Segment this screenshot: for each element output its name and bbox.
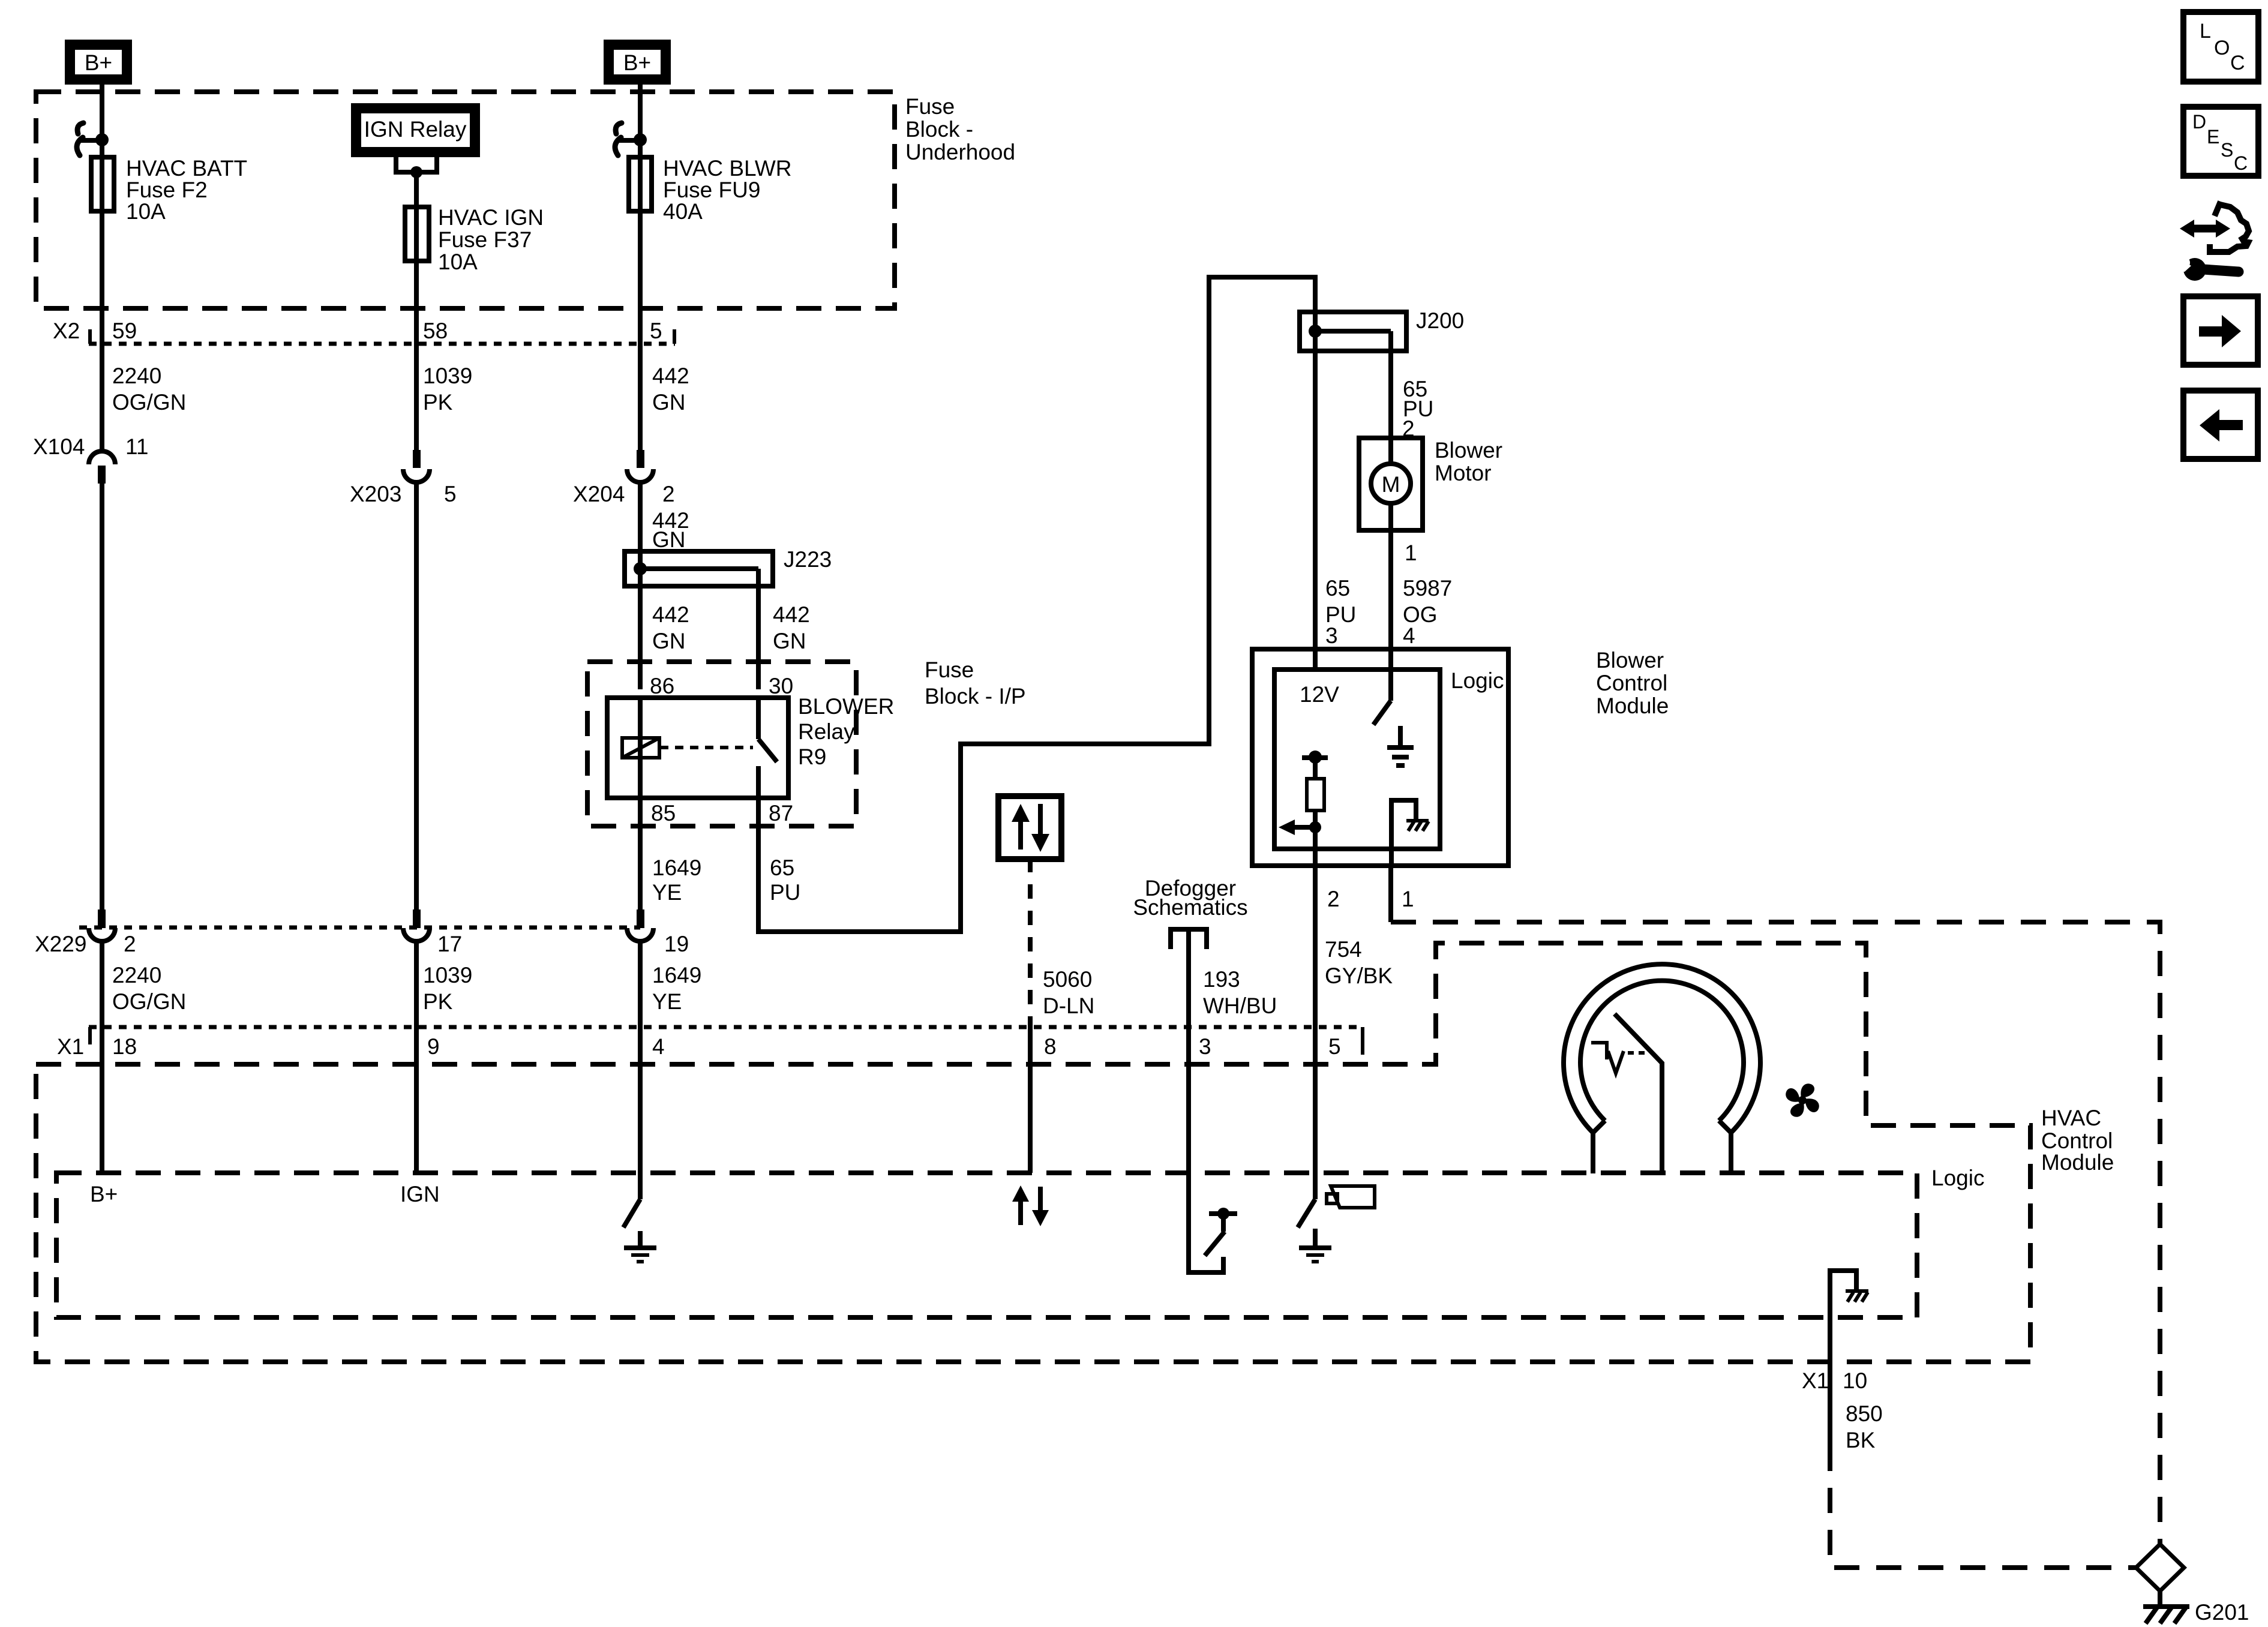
- svg-text:D-LN: D-LN: [1043, 993, 1094, 1018]
- svg-text:Control: Control: [2041, 1128, 2113, 1153]
- relay coil to contact dashed link: [660, 746, 753, 749]
- relay coil: [638, 698, 643, 738]
- wire BCM pin 2 down: [1313, 866, 1318, 1173]
- svg-text:Module: Module: [2041, 1150, 2114, 1175]
- X229 pin A: [98, 909, 106, 928]
- svg-text:65: 65: [1325, 576, 1350, 601]
- svg-text:2: 2: [124, 932, 136, 956]
- svg-text:17: 17: [437, 932, 462, 956]
- wire B+ to fuse F2: [100, 85, 104, 157]
- svg-text:59: 59: [112, 319, 137, 343]
- wire relay to fuse F37: [414, 172, 419, 207]
- svg-text:1: 1: [1405, 541, 1417, 565]
- wire J223 right leg: [756, 569, 761, 689]
- wire B+ to fuse FU9: [638, 85, 643, 157]
- svg-text:Fuse FU9: Fuse FU9: [663, 178, 760, 202]
- svg-text:442: 442: [652, 364, 689, 388]
- svg-text:X2: X2: [53, 319, 80, 343]
- svg-text:3: 3: [1325, 623, 1338, 648]
- relay switch contact: [756, 698, 761, 739]
- svg-text:5: 5: [650, 319, 662, 343]
- connector X104: [89, 451, 115, 464]
- svg-text:5060: 5060: [1043, 967, 1092, 992]
- dashed ground run 850 BK: [1830, 1446, 2136, 1568]
- fuse holder clips F2: [77, 123, 83, 134]
- blower relay R9 box: [607, 698, 788, 798]
- svg-text:1649: 1649: [652, 963, 701, 987]
- svg-text:Fuse F37: Fuse F37: [438, 227, 532, 252]
- svg-text:5: 5: [1328, 1034, 1341, 1059]
- svg-text:40A: 40A: [663, 199, 703, 224]
- wire X104 to X229: [100, 484, 104, 909]
- HVAC control module dashed outline: [36, 943, 2030, 1362]
- wire 85 to X229: [638, 798, 643, 909]
- svg-text:Fuse: Fuse: [905, 94, 955, 119]
- svg-text:OG/GN: OG/GN: [112, 989, 186, 1014]
- HVAC internal chassis ground hook: [1830, 1271, 1856, 1317]
- HVAC logic dashed box: [56, 1173, 1917, 1317]
- wire FU9 to X204: [638, 211, 643, 450]
- svg-text:B+: B+: [90, 1182, 118, 1206]
- fuse F2: [91, 157, 114, 211]
- X229 pin B: [413, 909, 421, 928]
- svg-text:Block - I/P: Block - I/P: [925, 684, 1026, 709]
- fuse F37: [405, 207, 429, 261]
- svg-text:4: 4: [652, 1034, 665, 1059]
- svg-text:PK: PK: [423, 390, 453, 415]
- svg-text:18: 18: [112, 1034, 137, 1059]
- DESC nav box: [2183, 107, 2258, 176]
- svg-text:X1: X1: [57, 1034, 84, 1059]
- svg-text:Control: Control: [1596, 671, 1667, 695]
- B+ power box 1: [65, 40, 132, 85]
- svg-text:5987: 5987: [1403, 576, 1452, 601]
- svg-text:87: 87: [769, 801, 793, 825]
- svg-text:2: 2: [662, 482, 675, 506]
- svg-text:R9: R9: [798, 745, 826, 769]
- dashed wire 5060 to X1: [1028, 858, 1033, 1027]
- svg-text:E: E: [2207, 126, 2219, 148]
- svg-text:Motor: Motor: [1435, 461, 1492, 485]
- wrench icon: [2203, 269, 2239, 272]
- X229 pin C: [637, 909, 644, 928]
- wire J200 to BCM pin 3: [1313, 351, 1318, 649]
- wires X229 to X1: [100, 941, 104, 1173]
- svg-text:C: C: [2234, 152, 2248, 174]
- svg-text:X203: X203: [350, 482, 401, 506]
- connector X2 line: [89, 342, 675, 346]
- svg-text:442: 442: [773, 602, 810, 627]
- svg-text:Underhood: Underhood: [905, 140, 1015, 164]
- ground splice diamond: [2136, 1544, 2184, 1591]
- svg-text:S: S: [2221, 139, 2233, 161]
- BCM control arrow: [1309, 821, 1321, 833]
- svg-text:BLOWER: BLOWER: [798, 694, 894, 719]
- wire F37 to X203: [414, 261, 419, 450]
- svg-text:30: 30: [769, 674, 793, 698]
- wire X1-10 ground: [1828, 1317, 1832, 1446]
- svg-text:193: 193: [1203, 967, 1240, 992]
- svg-text:86: 86: [650, 674, 674, 698]
- dashed ground run from BCM: [1391, 922, 2160, 1544]
- car direction icon: [2190, 225, 2220, 233]
- svg-text:M: M: [1382, 472, 1400, 497]
- fuse holder clips FU9: [616, 123, 622, 134]
- IGN relay output bracket: [396, 157, 437, 172]
- left arrow nav box: [2183, 391, 2258, 459]
- svg-text:O: O: [2214, 37, 2230, 59]
- splice J223: [625, 551, 773, 586]
- wire 193 to X1: [1186, 929, 1191, 1173]
- svg-text:HVAC IGN: HVAC IGN: [438, 205, 544, 230]
- knob dial: [1564, 964, 1760, 1133]
- svg-text:1039: 1039: [423, 364, 472, 388]
- svg-text:Module: Module: [1596, 694, 1669, 718]
- svg-text:X229: X229: [35, 932, 86, 956]
- ground under switch A: [638, 1231, 643, 1248]
- connector X203: [413, 450, 421, 468]
- blower motor: [1359, 438, 1423, 530]
- svg-text:PK: PK: [423, 989, 453, 1014]
- svg-text:Logic: Logic: [1931, 1166, 1984, 1190]
- wire 5060 X1 to module: [1028, 1027, 1033, 1173]
- HVAC internal switch wire A: [638, 1173, 643, 1199]
- svg-text:J200: J200: [1416, 308, 1464, 333]
- blower control module box: [1252, 649, 1508, 866]
- wire F2 to X104: [100, 211, 104, 451]
- HVAC internal defogger switch: [1189, 1173, 1223, 1272]
- svg-text:X104: X104: [33, 434, 85, 459]
- svg-text:3: 3: [1199, 1034, 1211, 1059]
- svg-text:BK: BK: [1846, 1428, 1876, 1452]
- svg-text:Logic: Logic: [1451, 668, 1504, 693]
- svg-text:11: 11: [125, 434, 148, 459]
- svg-text:10A: 10A: [126, 199, 166, 224]
- svg-text:2240: 2240: [112, 963, 161, 987]
- wire X204 to J223: [638, 482, 643, 551]
- svg-text:Blower: Blower: [1596, 648, 1664, 673]
- svg-text:IGN Relay: IGN Relay: [364, 117, 467, 142]
- svg-text:B+: B+: [85, 50, 112, 75]
- splice J200: [1300, 312, 1406, 351]
- svg-text:Block -: Block -: [905, 117, 973, 142]
- connector X229 line: [79, 926, 640, 930]
- fan icon: [1786, 1083, 1819, 1117]
- svg-text:Schematics: Schematics: [1133, 895, 1247, 920]
- svg-text:X204: X204: [573, 482, 625, 506]
- svg-text:PU: PU: [770, 880, 800, 905]
- wire J200 to blower motor: [1388, 331, 1393, 438]
- wire 87 to J200 run: [758, 277, 1315, 932]
- svg-text:5: 5: [444, 482, 457, 506]
- svg-text:D: D: [2192, 111, 2206, 133]
- ground under fan switch: [1313, 1229, 1318, 1248]
- svg-text:HVAC BLWR: HVAC BLWR: [663, 156, 791, 181]
- svg-text:442: 442: [652, 602, 689, 627]
- svg-text:OG/GN: OG/GN: [112, 390, 186, 415]
- svg-text:85: 85: [651, 801, 676, 825]
- svg-text:2240: 2240: [112, 364, 161, 388]
- svg-text:GN: GN: [652, 527, 686, 552]
- HVAC internal fan switch: [1313, 1173, 1318, 1199]
- svg-text:12V: 12V: [1300, 682, 1339, 707]
- svg-text:19: 19: [664, 932, 689, 956]
- svg-text:9: 9: [427, 1034, 440, 1059]
- svg-text:G201: G201: [2195, 1600, 2249, 1625]
- off-page arrows box: [998, 796, 1061, 859]
- wire motor to BCM pin 4: [1388, 530, 1393, 649]
- BCM pin1 chassis ground hook: [1391, 800, 1416, 866]
- svg-text:58: 58: [423, 319, 448, 343]
- connector X204: [637, 450, 644, 468]
- G201 chassis ground: [2143, 1604, 2189, 1609]
- svg-text:C: C: [2230, 52, 2245, 74]
- svg-text:B+: B+: [623, 50, 651, 75]
- fuse block underhood dashed box: [36, 92, 895, 308]
- connector X1 line: [89, 1025, 1363, 1029]
- svg-text:Fuse F2: Fuse F2: [126, 178, 208, 202]
- svg-text:L: L: [2200, 20, 2211, 43]
- svg-text:Relay: Relay: [798, 719, 855, 744]
- svg-text:GN: GN: [773, 629, 806, 653]
- svg-text:Blower: Blower: [1435, 438, 1502, 463]
- svg-text:WH/BU: WH/BU: [1203, 993, 1277, 1018]
- svg-text:850: 850: [1846, 1401, 1883, 1426]
- BCM internal ground: [1398, 726, 1403, 747]
- fuse FU9: [629, 157, 652, 211]
- svg-text:10A: 10A: [438, 250, 478, 274]
- svg-text:HVAC: HVAC: [2041, 1106, 2101, 1130]
- svg-text:GN: GN: [652, 629, 686, 653]
- BCM internal switch: [1388, 649, 1393, 701]
- svg-text:1: 1: [1402, 887, 1414, 911]
- IGN Relay box: [351, 103, 480, 157]
- svg-text:8: 8: [1044, 1034, 1057, 1059]
- svg-text:GY/BK: GY/BK: [1325, 963, 1393, 988]
- svg-text:J223: J223: [784, 547, 832, 572]
- HVAC internal up/down arrows: [1018, 1200, 1023, 1225]
- svg-text:GN: GN: [652, 390, 686, 415]
- svg-text:X1: X1: [1802, 1368, 1829, 1393]
- svg-text:YE: YE: [652, 989, 682, 1014]
- svg-text:HVAC BATT: HVAC BATT: [126, 156, 247, 181]
- wire X203 to X229: [414, 482, 419, 909]
- svg-text:Fuse: Fuse: [925, 658, 974, 682]
- svg-text:754: 754: [1325, 937, 1362, 962]
- BCM internal resistor: [1307, 779, 1324, 811]
- knob pointer: [1615, 1014, 1662, 1173]
- svg-text:IGN: IGN: [400, 1182, 440, 1206]
- svg-text:YE: YE: [652, 880, 682, 905]
- fuse block I/P dashed box: [587, 662, 856, 826]
- svg-text:4: 4: [1403, 623, 1415, 648]
- LOC nav box: [2183, 12, 2258, 82]
- svg-text:10: 10: [1843, 1368, 1867, 1393]
- BCM internal 12V feed: [1302, 755, 1328, 760]
- wire BCM pin 1 ground stub: [1388, 866, 1393, 922]
- wire J223 left leg: [638, 569, 643, 689]
- right arrow nav box: [2183, 296, 2258, 365]
- svg-text:65: 65: [770, 855, 794, 880]
- svg-text:1039: 1039: [423, 963, 472, 987]
- BCM pin 3 stub: [1313, 649, 1318, 670]
- svg-text:1649: 1649: [652, 855, 701, 880]
- knob wiper mark: [1591, 1043, 1607, 1059]
- svg-text:2: 2: [1327, 887, 1340, 911]
- B+ power box 2: [604, 40, 671, 85]
